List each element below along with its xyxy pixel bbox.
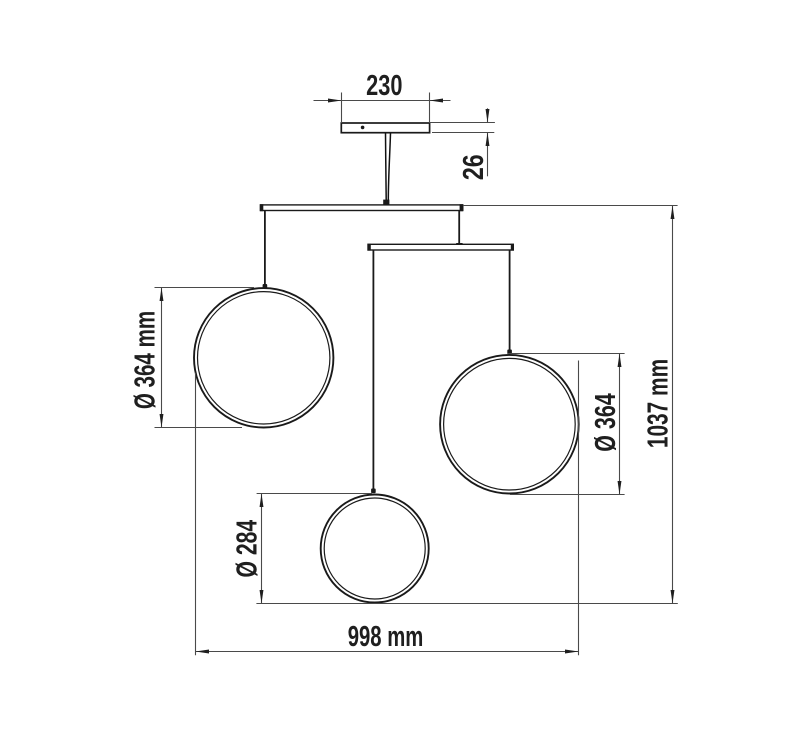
left ring outer — [194, 288, 333, 427]
label 998 mm — [348, 621, 424, 653]
dimension 26 line — [486, 108, 490, 176]
label diameter 364 — [590, 393, 622, 452]
wire to right ring — [507, 250, 512, 354]
left diameter dimension line — [160, 288, 164, 428]
svg-text:230: 230 — [366, 70, 402, 102]
width dimension line 998 — [196, 650, 579, 654]
height dimension line 1037 — [671, 206, 675, 604]
svg-text:Ø 284: Ø 284 — [231, 520, 263, 578]
canopy — [341, 123, 429, 133]
left diameter dimension extension lines — [155, 288, 255, 428]
bottom ring inner — [324, 498, 425, 599]
label 1037 mm — [642, 359, 674, 448]
right diameter dimension line — [618, 354, 622, 495]
dimension 230 line — [314, 99, 451, 103]
wire to lower bar — [456, 211, 462, 247]
suspension stem — [383, 133, 390, 205]
label 230 — [366, 70, 402, 102]
svg-text:1037 mm: 1037 mm — [642, 359, 674, 448]
right ring outer — [440, 355, 579, 494]
wire to bottom ring — [371, 250, 376, 493]
svg-text:998 mm: 998 mm — [348, 621, 424, 653]
left ring inner — [198, 292, 330, 424]
wire to left ring — [263, 211, 268, 289]
bottom diameter dimension line — [260, 494, 264, 604]
label diameter 284 — [231, 520, 263, 578]
dimension 26 extension lines — [430, 123, 495, 133]
canopy mounting hole — [361, 126, 365, 130]
label 26 — [456, 154, 489, 180]
height dimension extension lines — [256, 206, 677, 604]
label diameter 364 mm — [129, 311, 161, 409]
svg-text:26: 26 — [456, 154, 489, 180]
lower bar — [368, 244, 514, 251]
dimension 230 extension lines — [342, 93, 430, 124]
bottom ring outer — [321, 495, 429, 603]
svg-text:Ø 364: Ø 364 — [590, 393, 622, 452]
svg-text:Ø 364 mm: Ø 364 mm — [129, 311, 161, 409]
right ring inner — [444, 358, 576, 490]
width dimension extension lines — [196, 361, 579, 656]
right diameter dimension extension lines — [508, 354, 625, 495]
bottom diameter dimension extension line — [257, 493, 372, 495]
main bar — [260, 204, 463, 211]
